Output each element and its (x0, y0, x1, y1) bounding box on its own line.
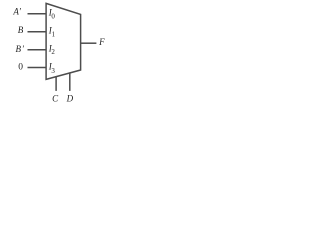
svg-text:B′: B′ (16, 44, 25, 54)
svg-text:0: 0 (51, 12, 55, 20)
svg-text:F: F (98, 37, 105, 47)
svg-text:2: 2 (51, 48, 55, 56)
wire input B to I1 (28, 31, 47, 33)
svg-text:1: 1 (52, 30, 56, 38)
svg-text:C: C (52, 93, 59, 103)
wire input A' to I0 (28, 13, 47, 15)
wire select C (55, 77, 57, 91)
svg-text:D: D (66, 93, 74, 103)
svg-text:A′: A′ (12, 7, 21, 17)
wire input B' to I2 (28, 49, 47, 51)
svg-text:0: 0 (18, 62, 23, 72)
svg-text:3: 3 (51, 67, 55, 75)
svg-text:B: B (18, 25, 24, 35)
wire input 0 to I3 (28, 67, 47, 69)
mux body U1 (4-to-1 multiplexer trapezoid) (46, 3, 81, 79)
wire select D (69, 73, 71, 91)
wire output F (81, 42, 97, 44)
